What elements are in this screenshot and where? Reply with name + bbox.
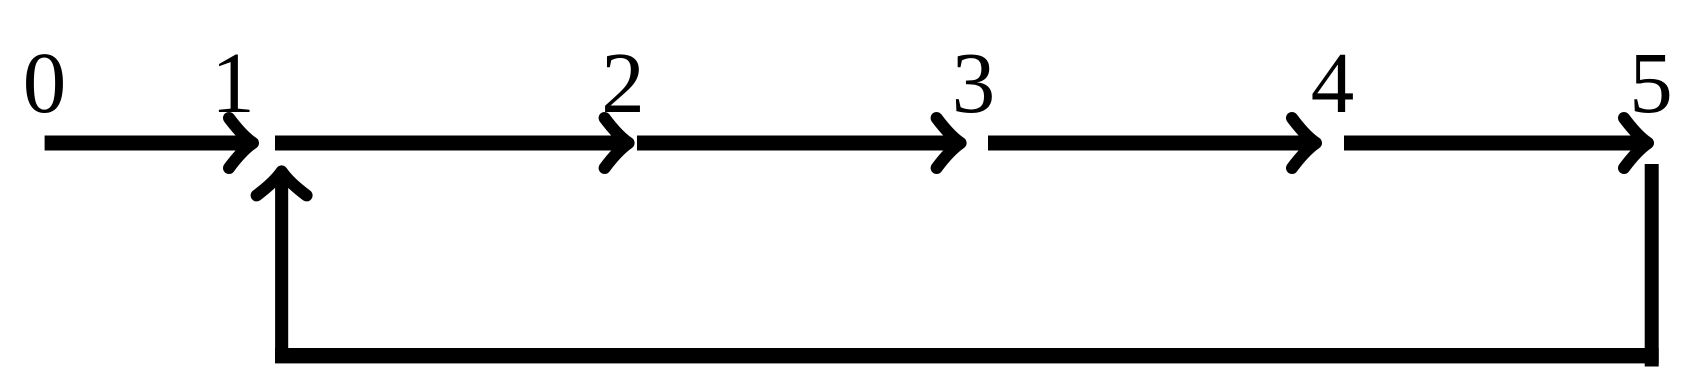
svg-text:0: 0 (23, 34, 67, 131)
svg-text:2: 2 (601, 34, 645, 131)
svg-text:4: 4 (1311, 34, 1355, 131)
svg-text:5: 5 (1629, 34, 1673, 131)
svg-text:1: 1 (211, 34, 255, 131)
svg-text:3: 3 (952, 34, 996, 131)
